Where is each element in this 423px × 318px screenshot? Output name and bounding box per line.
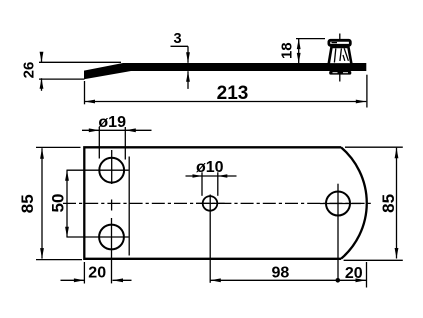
- svg-text:98: 98: [272, 265, 290, 282]
- svg-text:50: 50: [48, 194, 67, 213]
- svg-text:213: 213: [217, 83, 249, 104]
- svg-text:ø19: ø19: [98, 114, 126, 131]
- svg-text:3: 3: [174, 31, 182, 47]
- svg-text:85: 85: [18, 194, 37, 213]
- svg-text:18: 18: [279, 42, 296, 59]
- svg-text:85: 85: [379, 194, 398, 213]
- svg-text:ø10: ø10: [196, 159, 224, 176]
- svg-text:26: 26: [21, 62, 38, 79]
- svg-text:20: 20: [88, 265, 106, 282]
- svg-text:20: 20: [345, 265, 363, 282]
